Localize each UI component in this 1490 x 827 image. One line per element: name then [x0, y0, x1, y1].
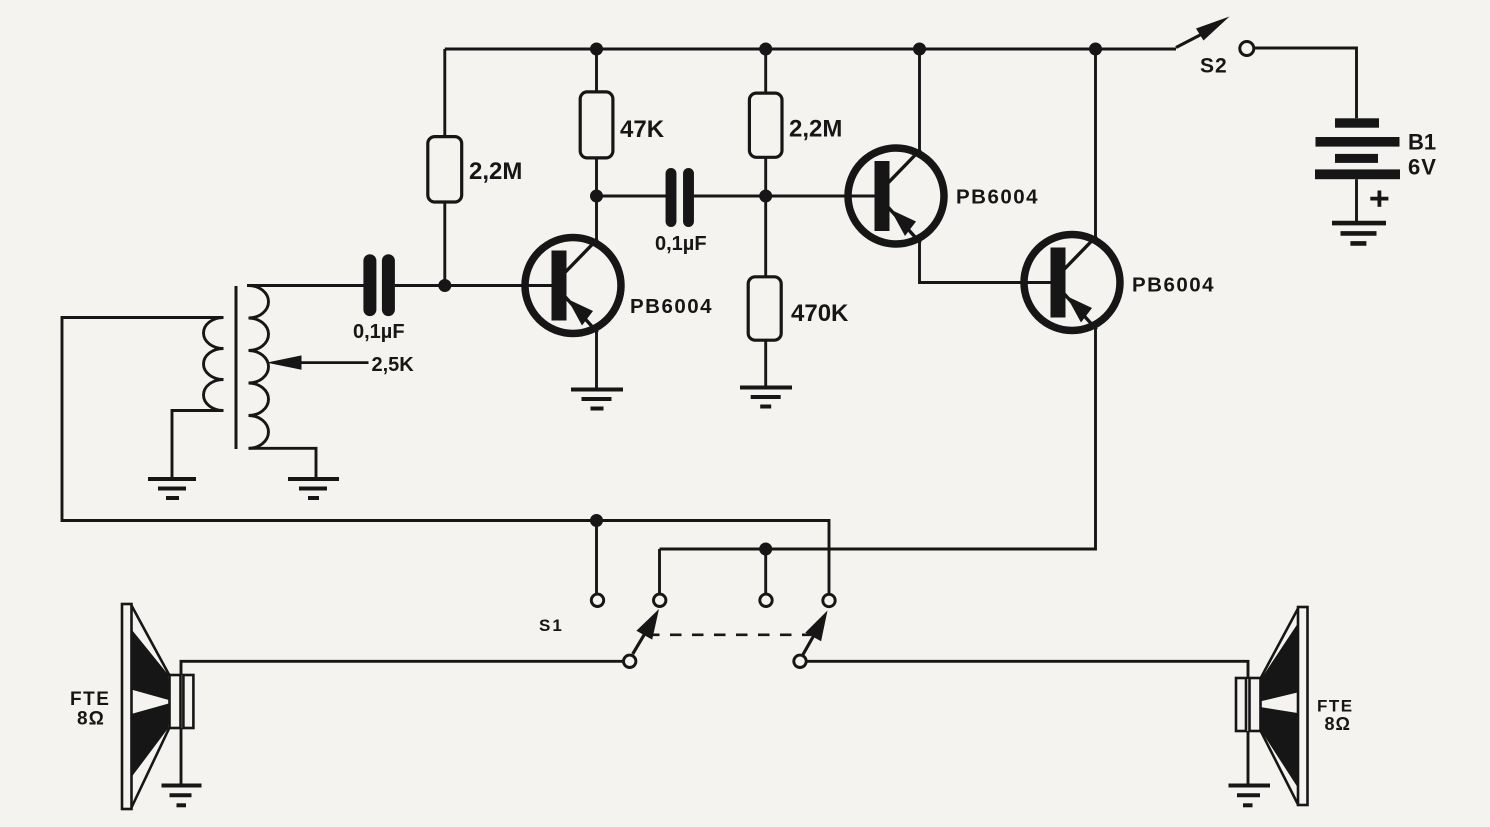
- node dot rail at 47K: [590, 43, 603, 56]
- ground under primary: [148, 479, 196, 498]
- ground under 470K: [740, 388, 792, 407]
- switch S2 terminal circle: [1240, 42, 1254, 56]
- cone top edge: [1261, 609, 1299, 679]
- switch S2 arrowhead: [1196, 17, 1230, 41]
- cone black fill lower: [132, 703, 170, 776]
- cone bottom edge: [1261, 731, 1299, 805]
- switch S1 lever A: [633, 630, 647, 654]
- svg-text:0,1µF: 0,1µF: [353, 321, 405, 343]
- cone black fill lower: [1260, 707, 1298, 787]
- wire capacitor to Q1 base: [395, 284, 553, 287]
- wire Q2 emitter to Q3 base: [920, 242, 1052, 283]
- wire 470K bottom to ground: [764, 340, 767, 386]
- switch S2 lever: [1176, 34, 1203, 48]
- wire 2,2M right bottom to node: [764, 157, 767, 196]
- node dot rail at Q3 collector: [1089, 43, 1102, 56]
- switch S1 lever B: [803, 636, 814, 655]
- node dot 2,2M right / 470K / Q2 base: [759, 190, 772, 203]
- switch S1 terminal 2: [654, 594, 666, 606]
- wire rail down to resistor 47K: [595, 49, 598, 92]
- node dot rail at Q2 collector: [913, 43, 926, 56]
- svg-text:470K: 470K: [791, 300, 849, 327]
- resistor 2,2M (left bias): [428, 137, 462, 202]
- wire primary top loop to S1 row (left big loop): [62, 318, 829, 595]
- speaker rim: [122, 604, 132, 809]
- svg-text:2,2M: 2,2M: [789, 116, 842, 143]
- wire S1 pole B to right speaker: [807, 661, 1249, 679]
- wire node down to resistor 470K: [764, 196, 767, 277]
- switch S1 terminal 1: [591, 594, 603, 606]
- svg-text:2,5K: 2,5K: [372, 354, 415, 376]
- wire battery to ground: [1355, 179, 1358, 222]
- wire Q3 collector to rail: [1094, 49, 1097, 237]
- node dot Q1 base / 2,2M left: [438, 279, 451, 292]
- voice coil plate 2: [183, 675, 193, 728]
- svg-text:S1: S1: [539, 616, 564, 635]
- node dot on S1 second wire: [759, 543, 772, 556]
- speaker rim: [1298, 607, 1308, 805]
- wire resistor 2,2M bottom to base node: [443, 202, 446, 286]
- wire Q1 emitter to ground: [595, 331, 598, 390]
- wire node down to S1 terminal 1: [595, 521, 598, 595]
- svg-text:PB6004: PB6004: [630, 295, 713, 318]
- transistor Q2 PB6004: [848, 148, 944, 244]
- ground under right speaker: [1229, 786, 1271, 806]
- wire S2 terminal to battery: [1254, 48, 1357, 118]
- wire node down to Q1 collector: [595, 196, 598, 240]
- node dot 47K / cap / Q1 collector: [590, 190, 603, 203]
- wire rail down to resistor 2,2M left: [443, 49, 446, 137]
- wire Q2 collector to rail: [918, 49, 921, 151]
- svg-text:6V: 6V: [1408, 155, 1437, 180]
- node dot on S1 top wire: [590, 514, 603, 527]
- resistor 2,2M (right bias): [749, 93, 782, 157]
- svg-text:S2: S2: [1200, 55, 1228, 78]
- svg-text:47K: 47K: [620, 116, 665, 143]
- svg-text:PB6004: PB6004: [1132, 274, 1215, 297]
- wire node down to S1 terminal 3: [764, 549, 767, 594]
- svg-text:0,1µF: 0,1µF: [655, 233, 707, 255]
- switch S1 terminal 3: [760, 594, 772, 606]
- wire rail down to resistor 2,2M right: [764, 49, 767, 93]
- switch S1 pole B: [794, 655, 806, 667]
- wire top supply rail: [445, 48, 1176, 51]
- cone black fill upper: [132, 630, 170, 700]
- wire capacitor to node under 2,2M right: [694, 195, 766, 198]
- wire secondary bottom to ground: [249, 448, 317, 478]
- node dot rail at 2,2M right: [759, 43, 772, 56]
- wire S1 pole A to left speaker: [181, 661, 623, 675]
- wire transformer secondary to capacitor 0,1uF input: [247, 284, 364, 287]
- ground under battery: [1332, 223, 1386, 243]
- wire primary bottom to ground: [172, 411, 224, 479]
- svg-text:B1: B1: [1408, 130, 1436, 155]
- wire 47K bottom to node: [595, 158, 598, 196]
- resistor 47K: [580, 92, 613, 158]
- transformer secondary winding 2,5K: [249, 286, 269, 449]
- wire node to capacitor 0,1uF (coupling): [597, 195, 667, 198]
- plus sign battery polarity: [1370, 191, 1388, 207]
- cone bottom edge: [132, 728, 170, 808]
- svg-text:8Ω: 8Ω: [77, 709, 105, 730]
- ground under left speaker: [162, 786, 202, 806]
- wire node to transistor Q2 base: [766, 195, 876, 198]
- ground under Q1 emitter: [571, 390, 623, 409]
- wire S1 terminal 2 up and right (second row wire): [658, 549, 661, 594]
- transformer primary winding: [204, 318, 224, 411]
- voice coil plate 1: [170, 675, 181, 728]
- battery B1: [1315, 118, 1400, 179]
- dashed gang link of S1: [648, 633, 811, 636]
- arrow pointer to winding 2,5K: [267, 355, 302, 369]
- transistor Q3 PB6004: [1024, 235, 1120, 331]
- cone black fill upper: [1260, 624, 1298, 702]
- svg-text:PB6004: PB6004: [956, 186, 1039, 209]
- wire Q3 emitter down and left to switch S1: [660, 329, 1096, 550]
- capacitor 0,1uF (first, input): [370, 261, 389, 310]
- right speaker FTE 8ohm: [1236, 607, 1308, 805]
- transistor Q1 PB6004: [525, 238, 621, 334]
- svg-text:2,2M: 2,2M: [469, 158, 522, 185]
- wire right speaker to ground: [1247, 731, 1250, 785]
- transformer core: [235, 286, 238, 449]
- voice coil plate 2: [1236, 678, 1246, 731]
- svg-text:8Ω: 8Ω: [1325, 714, 1351, 734]
- switch S1 pole A: [624, 655, 636, 667]
- left speaker FTE 8ohm: [122, 604, 193, 809]
- capacitor 0,1uF (second, coupling): [671, 174, 689, 222]
- wire left speaker to ground: [180, 728, 183, 785]
- svg-text:FTE: FTE: [70, 689, 110, 710]
- voice coil plate 1: [1250, 678, 1261, 731]
- cone top edge: [132, 606, 170, 676]
- ground under secondary: [288, 479, 339, 498]
- svg-text:FTE: FTE: [1317, 697, 1354, 716]
- resistor 470K: [748, 277, 781, 340]
- switch S1 terminal 4: [823, 594, 835, 606]
